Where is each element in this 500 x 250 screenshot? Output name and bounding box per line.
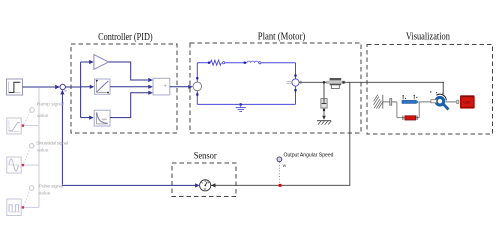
junction gearbox left <box>326 81 328 83</box>
rotor ring (gyro) <box>436 94 448 109</box>
disabled wire ramp <box>24 125 39 127</box>
wire motor circuit left vertical <box>196 63 198 105</box>
pulse source block (disabled) <box>7 199 21 216</box>
disabled wire pulse <box>24 206 39 208</box>
step source block <box>7 79 23 95</box>
wire motor circuit top left <box>197 62 210 64</box>
wire branch vertical <box>80 62 82 118</box>
frame wire rotor to body <box>446 101 457 103</box>
derivative block D <box>94 110 110 126</box>
svg-text:value: value <box>37 113 49 119</box>
dotted line to output connector <box>278 162 280 184</box>
svg-text:+: + <box>164 83 167 89</box>
gain block P <box>94 55 109 70</box>
wire integrator to add3 <box>110 85 153 89</box>
red cylinder body <box>460 95 475 108</box>
integrator block I <box>95 79 111 94</box>
annotation circle ramp <box>24 108 35 125</box>
svg-text:Visualization: Visualization <box>406 32 450 43</box>
unconnected pin ramp <box>22 124 24 126</box>
branch frame left vertical <box>396 102 398 118</box>
damper red block <box>403 116 417 120</box>
frame wire branch to rotor <box>419 101 431 103</box>
wire add3 to signal voltage <box>170 85 193 89</box>
rotor marks <box>430 91 437 93</box>
junction dot top wire 2 <box>244 62 246 64</box>
svg-text:CAD: CAD <box>463 101 471 105</box>
group box Controller (PID) <box>71 44 177 133</box>
body cylinder blue rod <box>402 100 419 105</box>
svg-text:Output Angular Speed: Output Angular Speed <box>284 152 334 158</box>
junction damper <box>323 81 325 83</box>
svg-text:value: value <box>37 148 49 154</box>
group box Sensor <box>172 163 236 197</box>
wire feedback to PID branch <box>65 86 80 88</box>
wire shaft to damper <box>323 82 325 98</box>
svg-text:value: value <box>39 190 51 196</box>
wire derivative to add3 <box>110 91 153 118</box>
damper <box>321 99 327 108</box>
svg-text:Controller (PID): Controller (PID) <box>98 32 153 43</box>
unconnected pin pulse <box>22 206 24 208</box>
disabled bus vertical <box>38 87 40 207</box>
svg-text:Pulse signal: Pulse signal <box>39 183 63 189</box>
ramp source block (disabled) <box>7 118 21 134</box>
shaft vertical to sensor <box>211 82 350 187</box>
svg-text:Plant (Motor): Plant (Motor) <box>258 32 306 43</box>
wire emf vertical <box>295 63 297 105</box>
frame marks above rod <box>402 95 417 100</box>
feedback wire sensor to summation <box>60 90 199 188</box>
feedback summation circle <box>60 84 67 91</box>
ground <box>236 103 246 111</box>
resistor R <box>210 60 225 65</box>
shaft emf to gearbox <box>299 81 444 84</box>
inductor L <box>247 61 261 64</box>
junction gearbox right <box>343 81 345 83</box>
output connector circle <box>277 157 282 162</box>
junction dot top wire 1 <box>208 62 210 64</box>
svg-text:Ramp signal: Ramp signal <box>37 102 64 108</box>
annotation circle pulse <box>24 186 34 206</box>
annotation circle sine <box>24 144 34 164</box>
disabled wire sine <box>24 164 39 166</box>
svg-text:Sinusoidal signal: Sinusoidal signal <box>36 141 68 147</box>
output node red dot <box>279 184 282 187</box>
wire branch to gain <box>81 60 94 64</box>
wire motor circuit bottom <box>197 103 295 105</box>
wire branch to derivative <box>81 116 94 120</box>
sine source block (disabled) <box>7 157 21 173</box>
wire step to feedback <box>23 85 60 89</box>
unconnected pin sine <box>22 164 24 166</box>
group box Visualization <box>367 45 493 135</box>
gearbox / inertia <box>327 78 345 88</box>
speed sensor <box>200 180 211 191</box>
branch frame bottom <box>397 117 419 119</box>
frame wire wall to branch <box>383 101 397 103</box>
rotor shaft stub <box>431 100 437 103</box>
shaft drop into visualization <box>442 82 444 94</box>
branch frame right vertical <box>418 102 420 118</box>
wire resistor to inductor <box>225 62 247 64</box>
group box Plant (Motor) <box>190 43 361 133</box>
wire inductor to emf <box>261 62 296 64</box>
emf <box>286 75 299 92</box>
wire gain to add3 <box>109 62 153 82</box>
wall fixed frame <box>374 95 383 109</box>
wire branch to integrator <box>81 85 95 89</box>
svg-text:Sensor: Sensor <box>194 151 217 161</box>
gray disc <box>456 100 459 104</box>
fixed support plant <box>317 121 331 125</box>
adder block Add3 <box>153 78 170 95</box>
small flange cylinder <box>390 99 392 106</box>
wire damper to fixed <box>322 108 326 120</box>
signal voltage source <box>193 77 202 96</box>
